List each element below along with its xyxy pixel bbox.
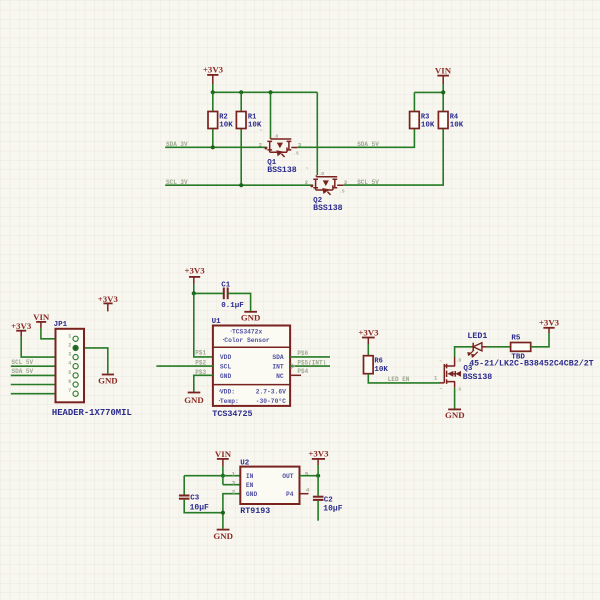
svg-text:NC: NC <box>276 373 284 380</box>
pin NC stub <box>290 374 301 376</box>
svg-text:GND: GND <box>184 395 204 405</box>
wire net SCL 5V <box>343 129 443 186</box>
wire pin5 SDA 5V <box>11 374 73 376</box>
svg-text:P$5(INT): P$5(INT) <box>297 360 326 367</box>
svg-text:10K: 10K <box>374 366 388 374</box>
pin 4 <box>73 364 78 369</box>
LED LED1 <box>467 332 487 358</box>
wire pin7 <box>11 393 73 395</box>
svg-text:C2: C2 <box>324 497 334 505</box>
svg-text:R6: R6 <box>374 357 382 365</box>
node junction OUT <box>316 474 320 478</box>
wire Q1 gate <box>270 92 272 137</box>
power VIN (JP1) <box>33 312 50 328</box>
svg-text:GND: GND <box>213 531 233 541</box>
svg-text:TCS3472x: TCS3472x <box>232 328 262 335</box>
pin 7 <box>73 391 78 396</box>
resistor R4 <box>438 112 463 130</box>
svg-text:~: ~ <box>440 359 443 364</box>
IC U2 box <box>240 460 299 504</box>
pin 1 <box>73 336 78 341</box>
wire EN <box>223 476 240 485</box>
node junction R1/SCL3V <box>239 183 243 187</box>
power +3V3 (JP1 pin3) <box>11 321 32 337</box>
svg-text:10K: 10K <box>219 122 233 130</box>
wire C3 bottom <box>184 500 223 513</box>
svg-text:BSS138: BSS138 <box>463 373 493 382</box>
power +3V3 (LED) <box>539 318 560 333</box>
resistor R3 <box>410 112 435 130</box>
svg-text:45-21/LK2C-B38452C4CB2/2T: 45-21/LK2C-B38452C4CB2/2T <box>469 359 593 369</box>
svg-text:10K: 10K <box>450 122 464 130</box>
wire C2 top <box>317 476 319 496</box>
wire LED to R5 <box>487 346 511 348</box>
svg-text:R4: R4 <box>450 113 458 121</box>
capacitor C1 <box>221 282 244 310</box>
svg-text:HEADER-1X770MIL: HEADER-1X770MIL <box>52 408 132 418</box>
wire SDA (U1) <box>290 356 330 358</box>
wire VDD vertical <box>194 293 213 357</box>
svg-text:.: . <box>218 396 222 403</box>
svg-text:VIN: VIN <box>435 66 452 76</box>
svg-text:+3V3: +3V3 <box>11 321 32 331</box>
svg-text:GND: GND <box>98 375 118 385</box>
svg-text:SCL: SCL <box>220 364 232 371</box>
wire pin6 <box>11 384 73 386</box>
resistor R6 <box>364 356 389 374</box>
wire to C3 <box>184 475 223 477</box>
svg-text:.D: .D <box>319 171 325 177</box>
power +3V3 (R6) <box>358 327 379 344</box>
svg-text:GND: GND <box>246 491 258 498</box>
svg-text:4: 4 <box>306 487 310 494</box>
node junction rail/Q1 gate <box>268 90 272 94</box>
svg-text:GND: GND <box>445 410 465 420</box>
wire net SDA 3V <box>165 146 265 148</box>
svg-text:1: 1 <box>434 374 438 381</box>
svg-text:.D: .D <box>456 357 462 363</box>
wire +3V3 rail <box>213 91 317 93</box>
wire GND (U1) <box>194 375 213 391</box>
wire GND (U2) <box>223 494 240 529</box>
ground GND (U2) <box>213 530 233 541</box>
node junction VIN/IN <box>221 474 225 478</box>
marker INT clock <box>291 364 295 369</box>
svg-text:3: 3 <box>68 352 71 358</box>
svg-text:10µF: 10µF <box>190 503 209 512</box>
wire VIN stem <box>442 84 444 112</box>
svg-text:1: 1 <box>232 470 236 477</box>
power +3V3 (floating) <box>98 294 119 312</box>
svg-text:TCS34725: TCS34725 <box>212 409 252 419</box>
wire VIN to pin1 <box>41 328 73 339</box>
resistor R5 <box>511 335 531 362</box>
node junction VIN/R4 <box>441 90 445 94</box>
transistor Q1 BSS138 <box>259 129 302 176</box>
wire pin4 SCL 5V <box>11 365 73 367</box>
svg-text:VIN: VIN <box>33 312 50 322</box>
capacitor C3 <box>179 495 209 513</box>
svg-text:GND: GND <box>241 312 261 322</box>
svg-text:-30-70°C: -30-70°C <box>256 397 286 405</box>
svg-text:2: 2 <box>259 141 262 148</box>
svg-text:4: 4 <box>68 361 71 367</box>
svg-text:GND: GND <box>220 373 232 380</box>
power +3V3 (U2 out) <box>308 449 329 465</box>
svg-text:.S: .S <box>293 151 299 157</box>
svg-text:U2: U2 <box>240 460 250 468</box>
wire +3V3 stem (U2) <box>317 465 319 476</box>
node junction rail/R2 <box>211 90 215 94</box>
capacitor C2 <box>313 496 343 514</box>
svg-text:10K: 10K <box>421 122 435 130</box>
svg-text:~: ~ <box>440 387 443 392</box>
svg-text:2: 2 <box>305 179 308 186</box>
node junction pin2 <box>73 346 77 350</box>
node junction C3/GND <box>221 511 225 515</box>
wire C3 top <box>183 476 185 495</box>
svg-text:VDD: VDD <box>220 354 232 361</box>
wire Q3 source to GND <box>454 387 456 409</box>
svg-text:10µF: 10µF <box>323 504 342 513</box>
wire C1 to GND <box>228 293 251 311</box>
svg-text:.: . <box>229 326 233 333</box>
wire +3V3 to pin3 <box>21 337 72 358</box>
wire VIN stem <box>222 466 224 476</box>
svg-text:SCL 5V: SCL 5V <box>12 359 34 366</box>
svg-text:SDA 5V: SDA 5V <box>357 141 379 148</box>
svg-text:3: 3 <box>232 480 236 487</box>
svg-text:INT: INT <box>272 364 284 371</box>
svg-text:LED1: LED1 <box>467 332 487 341</box>
svg-text:TBD: TBD <box>511 354 525 362</box>
wire R3 top <box>413 92 415 111</box>
wire +3V3 stem <box>212 84 214 92</box>
pin 2 <box>73 345 78 350</box>
wire VIN rail <box>414 91 443 93</box>
svg-text:.D: .D <box>273 133 279 139</box>
svg-text:P4: P4 <box>286 491 294 498</box>
svg-text:~: ~ <box>260 129 263 134</box>
wire SCL (U1) <box>156 365 213 367</box>
IC U1 box <box>212 318 291 406</box>
wire +3V3 to C1 <box>194 284 224 293</box>
wire R6 top <box>367 344 369 356</box>
svg-text:R1: R1 <box>248 113 256 121</box>
svg-text:SDA: SDA <box>272 354 284 361</box>
wire LED EN <box>368 374 439 383</box>
connector JP1 <box>54 321 84 403</box>
svg-text:SCL 5V: SCL 5V <box>357 179 379 186</box>
svg-text:+3V3: +3V3 <box>539 318 560 328</box>
wire INT (U1) <box>290 365 330 367</box>
pin 3 <box>73 355 78 360</box>
svg-text:BSS138: BSS138 <box>313 204 343 213</box>
svg-text:.S: .S <box>339 188 345 194</box>
svg-text:R3: R3 <box>421 113 429 121</box>
svg-text:2.7-3.6V: 2.7-3.6V <box>256 389 286 396</box>
svg-text:LED EN: LED EN <box>388 376 410 383</box>
svg-text:7: 7 <box>68 388 71 394</box>
wire IN <box>223 475 240 477</box>
resistor R1 <box>236 112 262 130</box>
svg-text:VIN: VIN <box>215 449 232 459</box>
node junction C1/VDD <box>192 291 196 295</box>
wire Q2 gate <box>316 92 318 175</box>
svg-text:0.1µF: 0.1µF <box>221 302 244 310</box>
wire R1 vertical <box>240 92 242 185</box>
wire R5 to +3V3 <box>531 333 549 347</box>
power VIN (top) <box>435 66 452 84</box>
svg-text:+3V3: +3V3 <box>185 266 206 276</box>
svg-text:2: 2 <box>68 342 71 348</box>
svg-text:JP1: JP1 <box>54 321 68 329</box>
svg-text:C1: C1 <box>221 282 231 290</box>
svg-text:SCL 3V: SCL 3V <box>166 179 188 186</box>
svg-text:EN: EN <box>246 482 254 489</box>
ground GND (C1) <box>241 312 261 323</box>
node junction R2/SDA3V <box>211 145 215 149</box>
wire Q3 drain to LED <box>455 347 474 357</box>
svg-text:6: 6 <box>68 379 71 385</box>
power +3V3 (U1) <box>185 266 206 285</box>
svg-text:OUT: OUT <box>282 473 294 480</box>
pin 6 <box>73 382 78 387</box>
svg-text:.S: .S <box>456 387 462 393</box>
svg-text:P$6: P$6 <box>297 350 308 357</box>
svg-text:+3V3: +3V3 <box>358 327 379 337</box>
transistor Q2 BSS138 <box>305 166 348 213</box>
svg-text:.: . <box>218 387 222 394</box>
power +3V3 (top rail) <box>203 65 224 85</box>
svg-text:IN: IN <box>246 473 254 480</box>
svg-text:RT9193: RT9193 <box>240 507 270 516</box>
svg-text:R2: R2 <box>219 113 227 121</box>
svg-text:1: 1 <box>68 333 71 339</box>
wire pin2 to GND <box>79 348 108 374</box>
svg-text:.: . <box>222 335 226 342</box>
svg-text:+3V3: +3V3 <box>98 294 119 304</box>
pin 5 <box>73 373 78 378</box>
svg-text:SDA 3V: SDA 3V <box>166 141 188 148</box>
wire R2 vertical <box>212 92 214 147</box>
svg-text:2: 2 <box>232 488 236 495</box>
power VIN (U2) <box>215 449 232 466</box>
wire net SDA 5V <box>297 129 414 148</box>
svg-text:P$2: P$2 <box>195 359 206 366</box>
wire net SCL 3V <box>165 184 311 186</box>
resistor R2 <box>208 112 233 130</box>
ground GND (JP1) <box>98 375 118 386</box>
pin P4 stub <box>300 493 309 495</box>
transistor Q3 BSS138 <box>439 357 492 393</box>
svg-text:U1: U1 <box>212 318 222 326</box>
svg-text:VDD:: VDD: <box>220 389 235 396</box>
ground GND (Q3) <box>445 409 465 420</box>
svg-text:5: 5 <box>68 370 71 376</box>
svg-text:+3V3: +3V3 <box>308 449 329 459</box>
svg-text:C3: C3 <box>190 495 200 503</box>
svg-text:P$4: P$4 <box>297 368 308 375</box>
wire C2 bottom <box>317 501 319 521</box>
svg-text:P$1: P$1 <box>195 349 206 356</box>
svg-text:Temp:: Temp: <box>220 398 239 405</box>
svg-text:~: ~ <box>306 166 309 171</box>
node junction rail/R1 <box>239 90 243 94</box>
wire OUT <box>300 475 319 477</box>
svg-text:BSS138: BSS138 <box>267 166 297 175</box>
svg-text:Color Sensor: Color Sensor <box>224 337 270 344</box>
ground GND (U1) <box>184 393 204 405</box>
svg-text:R5: R5 <box>511 335 521 343</box>
svg-text:SDA 5V: SDA 5V <box>12 368 34 375</box>
svg-text:+3V3: +3V3 <box>203 65 224 75</box>
